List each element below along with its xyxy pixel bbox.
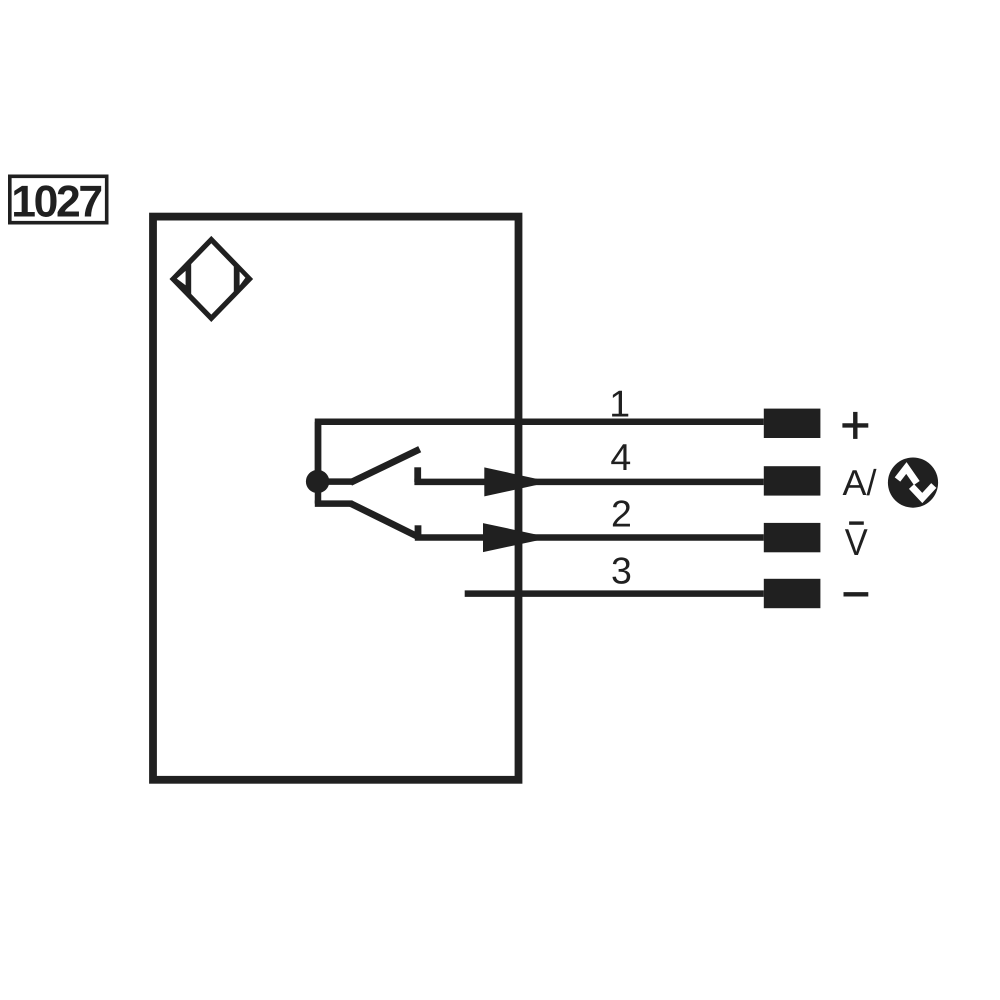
switch lever (NO contact toward pin 4) [351,449,420,482]
svg-text:A/: A/ [843,462,877,503]
label V with overline (analog output) [845,521,868,563]
diamond right triangle [234,264,249,294]
wire 3 [465,590,764,597]
wire: lower stub right [315,500,353,507]
arrowhead on wire 4 [484,467,550,496]
terminal block pin 2 [764,523,821,552]
contact tick of wire 4 [414,467,421,482]
svg-text:1027: 1027 [11,177,101,226]
label minus (supply minus) [844,592,869,596]
label box 1027 [10,176,107,226]
wire 2 [415,534,764,541]
label + (supply plus) [842,412,868,439]
svg-text:4: 4 [610,436,631,478]
node: common junction dot [306,470,329,493]
wire: stub from junction to switch pivot [318,478,352,485]
switch lever (NC contact toward pin 2) [351,503,419,537]
svg-text:2: 2 [611,492,632,534]
terminal block pin 3 [764,579,821,608]
sensor body outline [153,217,519,780]
optical symbol diamond [173,240,249,319]
wire: lower leg from junction down [315,482,322,504]
svg-text:V: V [845,521,868,563]
svg-text:1: 1 [609,382,630,424]
terminal block pin 4 [764,466,821,495]
wire 1 [318,422,764,481]
wire: vertical leg from wire 1 down to junction [315,422,322,482]
wenglor logo [888,458,938,508]
terminal block pin 1 [764,409,821,438]
diamond left triangle [174,263,192,296]
contact tick of wire 2 [415,525,422,538]
svg-text:3: 3 [611,550,632,592]
wire 4 [414,479,763,486]
arrowhead on wire 2 [483,523,551,552]
